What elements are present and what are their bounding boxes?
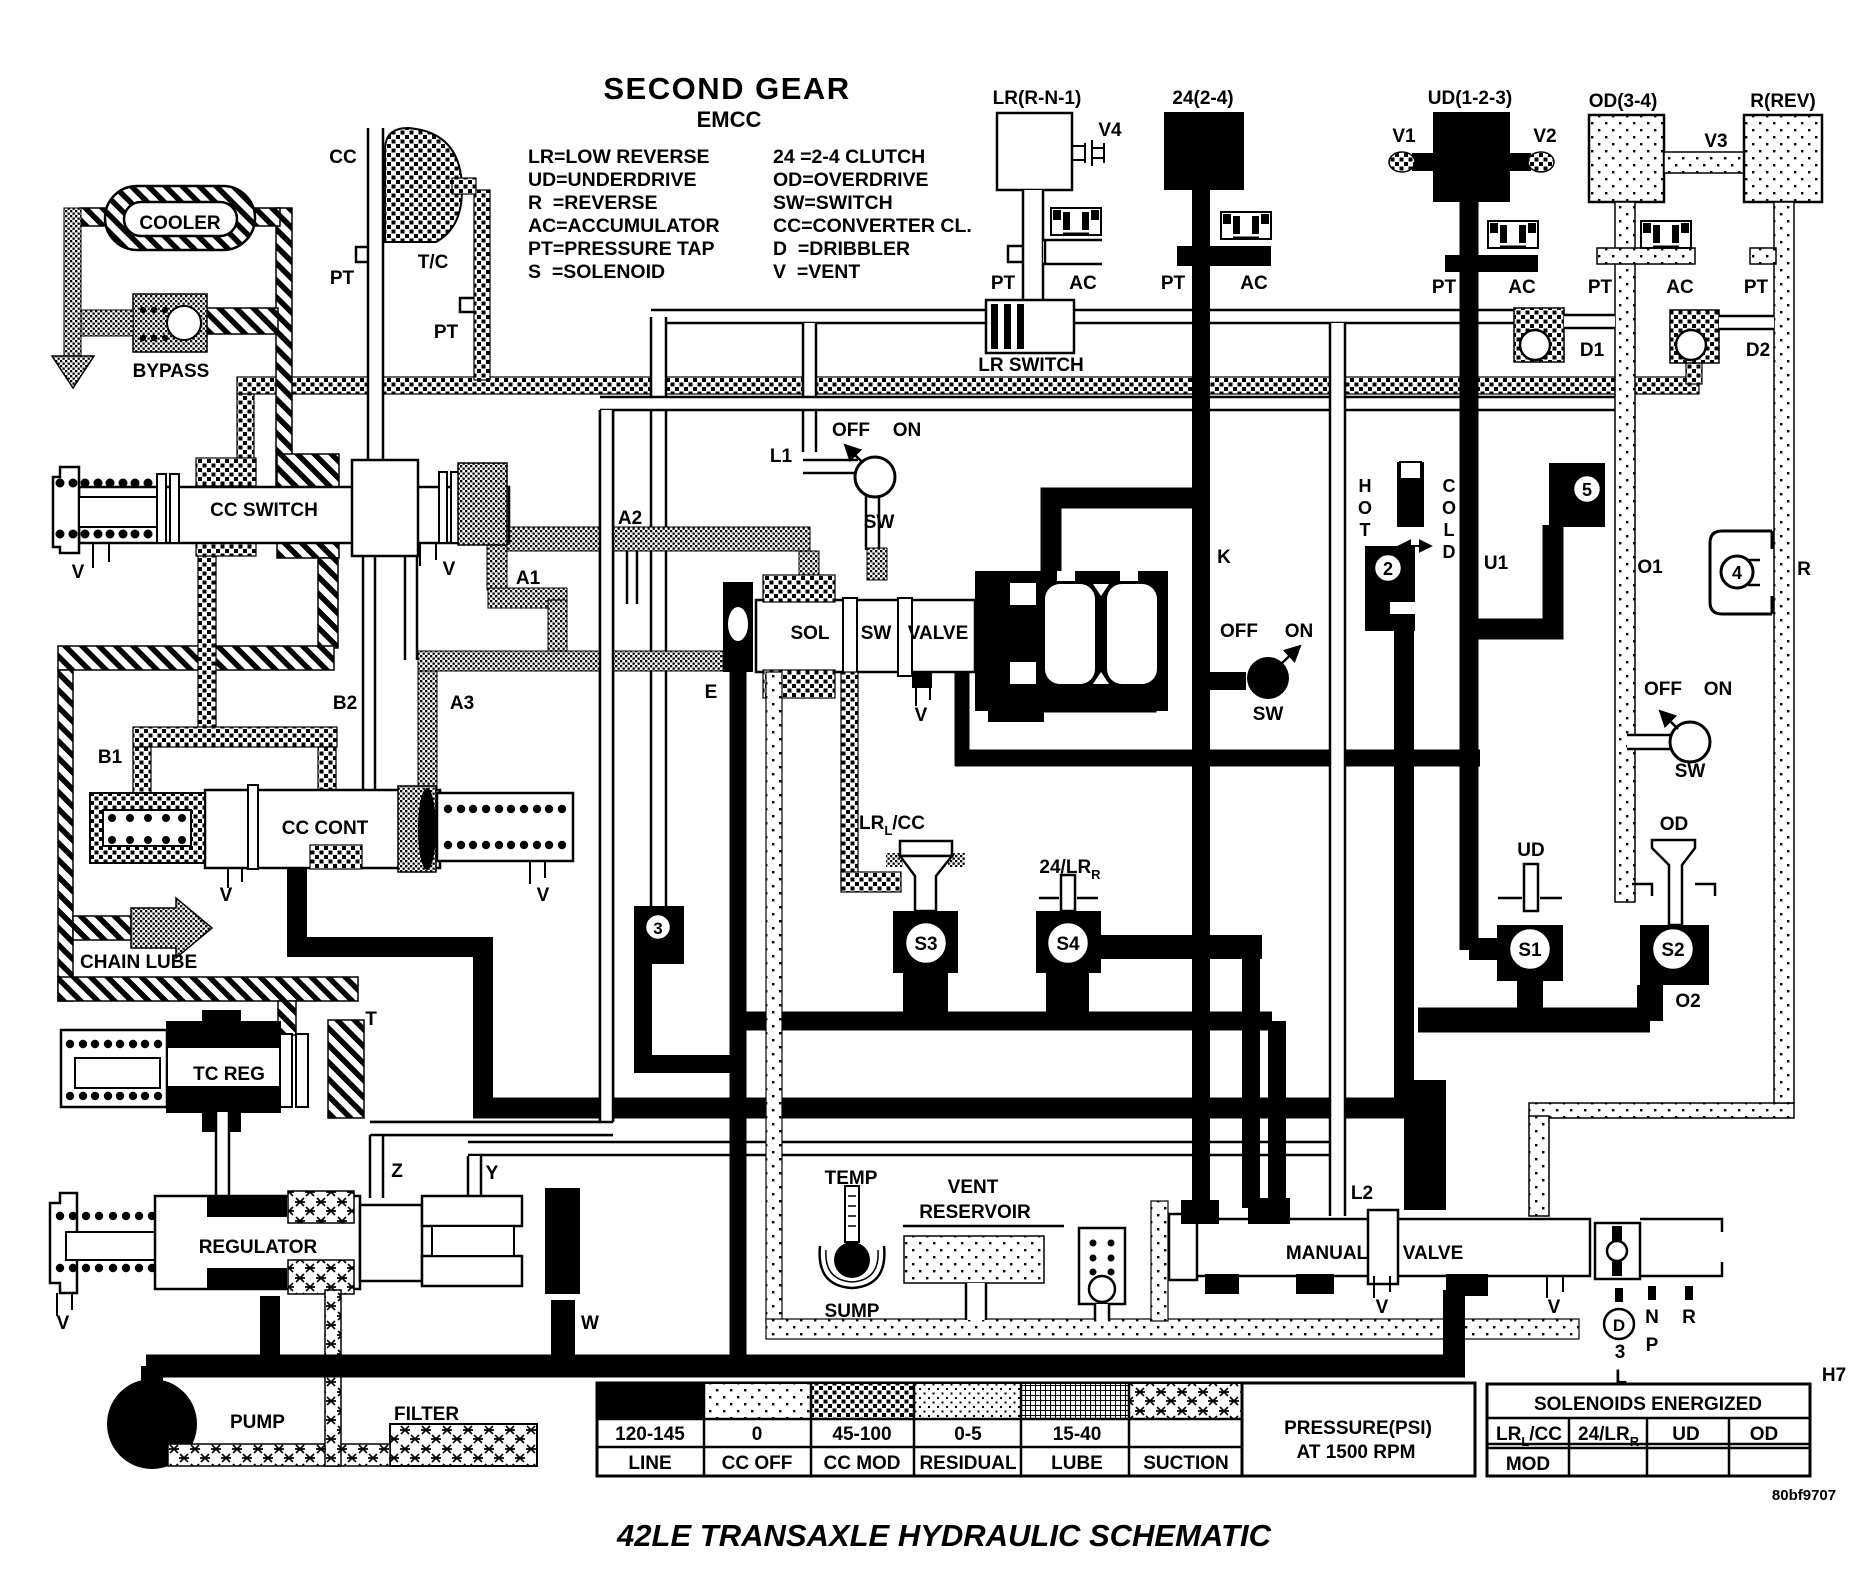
dribbler D1 bbox=[1514, 308, 1564, 362]
wire stipple jog at D2 bbox=[1686, 362, 1702, 384]
svg-text:V3: V3 bbox=[1704, 131, 1727, 152]
wire EMCC bottom-left leg bbox=[955, 665, 970, 766]
svg-text:LR(R-N-1): LR(R-N-1) bbox=[993, 88, 1082, 109]
svg-text:15-40: 15-40 bbox=[1053, 1424, 1102, 1445]
svg-text:EMCC: EMCC bbox=[697, 107, 762, 132]
wire EMCC SW port bottom black bbox=[988, 698, 1044, 722]
svg-text:AC: AC bbox=[1240, 273, 1268, 294]
switch SW at L1 bbox=[855, 457, 895, 497]
wire node5 drop bbox=[1478, 525, 1553, 629]
FILTER star box bbox=[390, 1424, 537, 1466]
svg-text:AC: AC bbox=[1508, 277, 1536, 298]
manual valve bottom blocks bbox=[1205, 1274, 1239, 1294]
svg-text:FILTER: FILTER bbox=[394, 1404, 459, 1425]
wire channel to node 3 bbox=[651, 317, 666, 906]
wire OD stem stipple bbox=[1615, 202, 1635, 902]
wire T/C right stipple path bbox=[474, 190, 490, 380]
svg-text:CC MOD: CC MOD bbox=[823, 1453, 900, 1474]
svg-text:V: V bbox=[57, 1313, 70, 1334]
svg-text:N: N bbox=[1645, 1307, 1659, 1328]
D1 link channel bbox=[1564, 315, 1615, 328]
CC CONT stipple bits bbox=[310, 845, 362, 869]
hatch block CC SWITCH top bbox=[277, 454, 339, 490]
wire channel Y drop bbox=[468, 1156, 481, 1198]
wire O2 elbow to S2 bbox=[1637, 985, 1663, 1021]
sump wall right of reservoir bbox=[1151, 1201, 1168, 1321]
svg-text:D: D bbox=[1613, 1316, 1625, 1335]
svg-text:D: D bbox=[1443, 542, 1456, 562]
wire LR AC branch bbox=[1043, 240, 1102, 264]
solenoid S3 bbox=[893, 911, 958, 973]
svg-text:80bf9707: 80bf9707 bbox=[1772, 1487, 1836, 1504]
svg-text:PT=PRESSURE TAP: PT=PRESSURE TAP bbox=[528, 238, 715, 260]
EMCC vent stub bbox=[912, 672, 932, 688]
wire H_C main feed horizontal bbox=[473, 1098, 1420, 1119]
TC REG plates bbox=[280, 1034, 292, 1107]
solenoids energized table bbox=[1487, 1384, 1810, 1476]
wire UD crossbar bbox=[1445, 255, 1538, 272]
manual valve left cap bbox=[1169, 1214, 1197, 1280]
wire A1-A3 gray horizontal to E bbox=[418, 651, 723, 671]
suction star vertical bbox=[325, 1290, 341, 1466]
wire A2 gray line bbox=[505, 527, 810, 551]
svg-text:V: V bbox=[1548, 1297, 1561, 1318]
svg-text:SW: SW bbox=[1253, 704, 1284, 725]
cooler loop hatched band right bbox=[276, 208, 292, 490]
svg-text:24(2-4): 24(2-4) bbox=[1172, 88, 1233, 109]
svg-text:5: 5 bbox=[1582, 480, 1592, 500]
PT stub on T/C path bbox=[460, 298, 474, 312]
svg-text:OD: OD bbox=[1750, 1424, 1779, 1445]
wire W drop bbox=[551, 1300, 575, 1366]
svg-text:H7: H7 bbox=[1822, 1365, 1846, 1386]
wire node3 stem bbox=[643, 962, 740, 1064]
svg-text:120-145: 120-145 bbox=[615, 1424, 685, 1445]
svg-text:R =REVERSE: R =REVERSE bbox=[528, 192, 658, 214]
manual valve right pin box bbox=[1595, 1223, 1640, 1279]
svg-text:2: 2 bbox=[1383, 559, 1393, 579]
cooler capsule bbox=[105, 186, 255, 250]
svg-text:O: O bbox=[1442, 498, 1456, 518]
svg-text:D2: D2 bbox=[1746, 340, 1770, 361]
svg-text:S2: S2 bbox=[1661, 940, 1684, 961]
REGULATOR left bracket bbox=[50, 1193, 77, 1293]
CC CONT plates bbox=[248, 785, 258, 869]
svg-text:V1: V1 bbox=[1392, 126, 1416, 147]
wire channel L1 drop bbox=[803, 323, 816, 452]
svg-text:B2: B2 bbox=[333, 693, 357, 714]
svg-text:RESERVOIR: RESERVOIR bbox=[919, 1202, 1031, 1223]
wire stipple B1 horizontal bbox=[133, 727, 337, 747]
svg-text:BYPASS: BYPASS bbox=[133, 361, 210, 382]
wire UD clutch line vertical bbox=[1460, 202, 1479, 950]
svg-text:VALVE: VALVE bbox=[908, 623, 969, 644]
wire pump riser bbox=[141, 1366, 163, 1390]
pressure legend table bbox=[597, 1383, 1242, 1476]
svg-text:R: R bbox=[1797, 559, 1811, 580]
T/C dome bbox=[385, 128, 462, 242]
clutch box R(REV) bbox=[1744, 115, 1822, 202]
solenoid S2 funnel bbox=[1652, 840, 1695, 925]
solenoid S4 stem bbox=[1061, 875, 1075, 911]
svg-text:SW: SW bbox=[861, 623, 892, 644]
bypass gray stub bbox=[81, 310, 133, 336]
B1 spring box bbox=[90, 793, 205, 863]
wire S1 stem bbox=[1517, 975, 1543, 1015]
svg-text:W: W bbox=[581, 1313, 599, 1334]
wire channel C2-drop overdraw bbox=[600, 410, 613, 1122]
wire light stipple channel SOL down bbox=[766, 672, 782, 1322]
svg-text:UD=UNDERDRIVE: UD=UNDERDRIVE bbox=[528, 169, 696, 191]
PT stub LR bbox=[1008, 246, 1023, 262]
wire regulator drop bbox=[260, 1296, 280, 1366]
wire main pump line bbox=[146, 1355, 1465, 1378]
D2 link channel bbox=[1719, 316, 1774, 329]
wire S3 stem bbox=[903, 973, 948, 1021]
svg-text:B1: B1 bbox=[98, 747, 123, 768]
svg-text:V4: V4 bbox=[1098, 120, 1122, 141]
wire EMCC recirculation loop bbox=[1000, 675, 1150, 706]
wire channel C2 left drop bbox=[600, 410, 613, 1122]
wire R line to manual valve stipple bbox=[1529, 1103, 1794, 1118]
svg-text:PT: PT bbox=[1744, 277, 1769, 298]
wire channel C3 horizontal bbox=[468, 1142, 1332, 1155]
svg-text:0: 0 bbox=[752, 1424, 763, 1445]
svg-text:REGULATOR: REGULATOR bbox=[199, 1237, 318, 1258]
CC SWITCH spring bbox=[56, 479, 65, 488]
wire SW stub from K bbox=[1201, 672, 1246, 690]
svg-text:MOD: MOD bbox=[1506, 1454, 1550, 1475]
svg-text:SUCTION: SUCTION bbox=[1143, 1453, 1229, 1474]
suction star band bbox=[168, 1444, 390, 1466]
svg-text:OFF: OFF bbox=[832, 420, 870, 441]
svg-text:SW: SW bbox=[1675, 761, 1706, 782]
svg-text:LUBE: LUBE bbox=[1051, 1453, 1103, 1474]
wire gray stub into SW block bbox=[867, 548, 887, 580]
wire channel B2 drops below CC SWITCH bbox=[363, 556, 375, 790]
wire K branch into EMCC valve bbox=[1051, 498, 1201, 578]
wire channel Z feed bbox=[370, 1122, 613, 1135]
wire channel C2 horizontal bbox=[600, 397, 1615, 410]
svg-text:S1: S1 bbox=[1518, 940, 1542, 961]
svg-text:V: V bbox=[220, 885, 233, 906]
svg-text:O2: O2 bbox=[1675, 991, 1700, 1012]
svg-text:MANUAL: MANUAL bbox=[1286, 1243, 1369, 1264]
accumulator LR bbox=[1051, 208, 1101, 235]
svg-text:A1: A1 bbox=[516, 568, 541, 589]
svg-text:U1: U1 bbox=[1484, 553, 1509, 574]
wire manual valve right riser bbox=[1443, 1290, 1465, 1366]
wire channel A2 stub bbox=[627, 551, 637, 604]
svg-text:O: O bbox=[1358, 498, 1372, 518]
svg-text:PT: PT bbox=[1432, 277, 1457, 298]
R crossbar stub bbox=[1750, 248, 1776, 264]
svg-text:T: T bbox=[1360, 520, 1371, 540]
svg-text:S3: S3 bbox=[914, 934, 937, 955]
CC CONT vent stubs bbox=[228, 868, 242, 888]
accumulator UD bbox=[1488, 221, 1538, 248]
wire LR stem channel bbox=[1023, 190, 1043, 302]
switch SW overdrive bbox=[1627, 735, 1672, 749]
hatch block CC SWITCH bottom bbox=[277, 524, 339, 558]
svg-text:C: C bbox=[1443, 476, 1456, 496]
svg-text:45-100: 45-100 bbox=[832, 1424, 891, 1445]
svg-text:V: V bbox=[72, 562, 85, 583]
svg-text:0-5: 0-5 bbox=[954, 1424, 982, 1445]
chain-lube hatched frame top bbox=[58, 646, 334, 670]
svg-text:UD: UD bbox=[1517, 840, 1544, 861]
svg-text:OD=OVERDRIVE: OD=OVERDRIVE bbox=[773, 169, 929, 191]
wire channel L1 to switch SW bbox=[803, 460, 858, 473]
bypass gray band bbox=[64, 208, 81, 356]
svg-text:SUMP: SUMP bbox=[825, 1301, 880, 1322]
clutch box 24(2-4) bbox=[1164, 112, 1244, 190]
wire A1 gray vertical bbox=[548, 600, 567, 655]
node 3 bbox=[634, 906, 684, 964]
EMCC plates bbox=[843, 598, 857, 676]
wire TC REG stem channel bbox=[216, 1112, 229, 1198]
svg-text:PT: PT bbox=[434, 322, 459, 343]
wire R drop into valve stipple bbox=[1529, 1116, 1549, 1216]
node 4 bracket bbox=[1710, 531, 1772, 614]
svg-text:42LE TRANSAXLE HYDRAULIC SCHEM: 42LE TRANSAXLE HYDRAULIC SCHEMATIC bbox=[616, 1518, 1272, 1553]
wire A2 gray stub into SOL bbox=[799, 551, 819, 581]
CC SWITCH valve body bbox=[79, 487, 509, 543]
hatch drop below CC SWITCH bbox=[318, 558, 338, 648]
svg-text:3: 3 bbox=[1615, 1342, 1626, 1363]
node 5 bbox=[1549, 463, 1605, 527]
solenoid S3 funnel bbox=[886, 853, 903, 867]
CC SWITCH vent stubs bbox=[93, 543, 109, 568]
CC SWITCH center cross bbox=[352, 460, 418, 556]
svg-text:UD: UD bbox=[1672, 1424, 1699, 1445]
svg-text:SOL: SOL bbox=[790, 623, 829, 644]
svg-text:D1: D1 bbox=[1580, 340, 1605, 361]
REGULATOR star blocks bbox=[288, 1191, 354, 1223]
wire 24 crossbar bbox=[1177, 246, 1271, 266]
solenoid S1 bbox=[1497, 925, 1563, 981]
svg-text:L: L bbox=[1444, 520, 1455, 540]
wire A3 gray drop to CC CONT bbox=[418, 671, 437, 791]
svg-text:CC CONT: CC CONT bbox=[282, 818, 369, 839]
V4 connector bbox=[1072, 140, 1104, 166]
svg-text:SOLENOIDS ENERGIZED: SOLENOIDS ENERGIZED bbox=[1534, 1394, 1762, 1415]
svg-text:COOLER: COOLER bbox=[139, 213, 221, 234]
wire reservoir stem bbox=[966, 1283, 986, 1320]
svg-text:R: R bbox=[1682, 1307, 1696, 1328]
wire O2 line bbox=[1418, 1008, 1650, 1033]
svg-text:VALVE: VALVE bbox=[1403, 1243, 1464, 1264]
wire stipple drop to CC SWITCH bbox=[237, 394, 254, 462]
svg-text:SW: SW bbox=[864, 512, 895, 533]
wire CC CONT black drop bbox=[297, 866, 483, 1098]
SOL stipple block bottom bbox=[763, 670, 835, 698]
switch SW EMCC bbox=[1247, 657, 1289, 699]
svg-text:L2: L2 bbox=[1351, 1183, 1373, 1204]
REGULATOR right black block bbox=[545, 1188, 580, 1294]
clutch box LR(R-N-1) bbox=[997, 113, 1072, 190]
clutch box OD(3-4) bbox=[1589, 115, 1664, 202]
CC SWITCH gray end block bbox=[458, 463, 507, 545]
svg-text:A3: A3 bbox=[450, 693, 474, 714]
svg-text:RESIDUAL: RESIDUAL bbox=[919, 1453, 1017, 1474]
bypass valve bbox=[133, 294, 207, 352]
wire A1 gray drop from CC SWITCH bbox=[487, 545, 507, 590]
sump enclosure bottom stipple bbox=[766, 1319, 1579, 1339]
wire CC channel bbox=[368, 128, 383, 460]
svg-text:PRESSURE(PSI): PRESSURE(PSI) bbox=[1284, 1418, 1432, 1439]
SOL stipple block top bbox=[763, 575, 835, 602]
wire A1 gray horizontal bbox=[488, 588, 567, 608]
svg-text:CC: CC bbox=[329, 147, 357, 168]
svg-text:P: P bbox=[1646, 1335, 1659, 1356]
wire stipple drop into CC CONT bbox=[318, 747, 336, 797]
svg-text:SECOND GEAR: SECOND GEAR bbox=[603, 71, 850, 106]
hatched elbow to T bbox=[278, 1001, 296, 1035]
CC CONT valve body bbox=[205, 790, 440, 868]
svg-text:PT: PT bbox=[330, 268, 355, 289]
solenoid S2 bbox=[1640, 925, 1709, 985]
manual valve right channel bbox=[1640, 1219, 1722, 1276]
pressure psi box bbox=[1242, 1383, 1475, 1476]
svg-text:PT: PT bbox=[1161, 273, 1186, 294]
wire E line vertical bbox=[730, 668, 747, 1368]
CC SWITCH plates bbox=[157, 474, 166, 543]
cooler link top bbox=[80, 208, 280, 226]
svg-text:ON: ON bbox=[893, 420, 922, 441]
dribbler D2 bbox=[1670, 310, 1719, 363]
svg-text:OD(3-4): OD(3-4) bbox=[1589, 91, 1658, 112]
shift indicator bbox=[1615, 1288, 1623, 1302]
svg-text:E: E bbox=[705, 682, 718, 703]
wire channel L2 vertical bbox=[1330, 323, 1345, 1216]
solenoid S1 stem bbox=[1524, 864, 1538, 911]
accumulator 24 bbox=[1221, 212, 1271, 239]
svg-text:V: V bbox=[915, 705, 928, 726]
node 2 bbox=[1365, 546, 1415, 631]
wire main pump line overdraw bbox=[146, 1355, 1465, 1378]
svg-text:OD: OD bbox=[1660, 814, 1689, 835]
bypass arrow head bbox=[52, 356, 94, 388]
wire 24 clutch line K vertical bbox=[1192, 190, 1210, 1212]
CC CONT right spring bracket bbox=[437, 793, 573, 861]
svg-text:H: H bbox=[1359, 476, 1372, 496]
clutch box UD(1-2-3) bbox=[1433, 112, 1510, 202]
svg-text:LINE: LINE bbox=[628, 1453, 671, 1474]
svg-text:LR=LOW REVERSE: LR=LOW REVERSE bbox=[528, 146, 709, 168]
svg-text:O1: O1 bbox=[1637, 557, 1663, 578]
wire channel below switch SW bbox=[866, 494, 879, 550]
svg-text:OFF: OFF bbox=[1220, 621, 1258, 642]
bypass valve link hatched bbox=[203, 308, 278, 334]
svg-text:AT 1500 RPM: AT 1500 RPM bbox=[1297, 1442, 1416, 1463]
svg-text:S4: S4 bbox=[1056, 934, 1080, 955]
REGULATOR right piston bbox=[360, 1205, 422, 1281]
wire UD elbow to S1 bbox=[1469, 938, 1512, 960]
svg-text:Z: Z bbox=[391, 1161, 403, 1182]
wire stipple B1 drop bbox=[133, 747, 151, 795]
svg-text:S =SOLENOID: S =SOLENOID bbox=[528, 261, 665, 283]
svg-text:D =DRIBBLER: D =DRIBBLER bbox=[773, 238, 910, 260]
svg-text:Y: Y bbox=[486, 1163, 499, 1184]
wire S4 right horizontal bbox=[1098, 935, 1262, 959]
wire wide drop into manual valve bbox=[1404, 1080, 1446, 1210]
MANUAL VALVE body bbox=[1195, 1219, 1590, 1276]
svg-text:K: K bbox=[1217, 547, 1231, 568]
TC REG body bbox=[167, 1022, 280, 1112]
EMCC black section with barrel bbox=[975, 571, 1168, 711]
wire channel Z drop bbox=[370, 1135, 383, 1198]
svg-text:CC OFF: CC OFF bbox=[722, 1453, 793, 1474]
thermal valve bbox=[1397, 462, 1424, 527]
svg-text:CC=CONVERTER CL.: CC=CONVERTER CL. bbox=[773, 215, 972, 237]
svg-text:L1: L1 bbox=[770, 446, 793, 467]
wire channel C1 LR-switch line bbox=[651, 310, 988, 323]
svg-text:V: V bbox=[537, 885, 550, 906]
svg-text:AC=ACCUMULATOR: AC=ACCUMULATOR bbox=[528, 215, 720, 237]
REGULATOR body bbox=[155, 1196, 360, 1289]
svg-text:AC: AC bbox=[1069, 273, 1097, 294]
svg-text:LR SWITCH: LR SWITCH bbox=[978, 355, 1084, 376]
vent dribbler component bbox=[1079, 1228, 1125, 1304]
CC SWITCH left cap bbox=[53, 467, 79, 553]
chain lube arrow bbox=[73, 916, 131, 940]
svg-text:VENT: VENT bbox=[948, 1177, 999, 1198]
svg-text:24 =2-4 CLUTCH: 24 =2-4 CLUTCH bbox=[773, 146, 925, 168]
svg-text:AC: AC bbox=[1666, 277, 1694, 298]
thermal arrow bbox=[1400, 545, 1430, 547]
V3 connector bbox=[1664, 152, 1744, 173]
svg-text:TC REG: TC REG bbox=[193, 1064, 265, 1085]
svg-text:SW=SWITCH: SW=SWITCH bbox=[773, 192, 893, 214]
wire EMCC to node2 horizontal bbox=[955, 750, 1480, 767]
wire checkered channel SW to S3 bbox=[841, 672, 858, 884]
wire CC-MOD stipple band horizontal bbox=[237, 377, 1699, 394]
stipple blocks CC SWITCH bbox=[196, 458, 256, 486]
svg-text:CC SWITCH: CC SWITCH bbox=[210, 500, 318, 521]
svg-text:ON: ON bbox=[1285, 621, 1314, 642]
wire H_A solenoid feed bbox=[746, 1012, 1272, 1031]
V1 connector bbox=[1412, 153, 1433, 171]
manual valve top blocks bbox=[1181, 1200, 1219, 1224]
hatched block right of TC REG bbox=[328, 1020, 364, 1118]
CC CONT gray block bbox=[398, 786, 436, 872]
EMCC valve body SOL SW VALVE bbox=[756, 600, 975, 672]
svg-text:V2: V2 bbox=[1533, 126, 1556, 147]
wire stipple CC-CONT feed vertical bbox=[198, 543, 216, 739]
wire V5 drop to manual valve bbox=[1242, 947, 1260, 1208]
solenoid S4 bbox=[1036, 911, 1101, 973]
manual valve vent stubs bbox=[1374, 1276, 1390, 1298]
wire S4 stem bbox=[1046, 973, 1089, 1021]
svg-text:3: 3 bbox=[653, 919, 662, 938]
TC REG left bracket bbox=[61, 1030, 167, 1107]
wire R stem stipple bbox=[1774, 202, 1794, 1103]
svg-text:ON: ON bbox=[1704, 679, 1733, 700]
svg-text:T: T bbox=[365, 1009, 377, 1030]
LR SWITCH bbox=[986, 300, 1074, 353]
chain-lube hatched frame bottom bbox=[58, 977, 358, 1001]
svg-text:PT: PT bbox=[991, 273, 1016, 294]
svg-text:UD(1-2-3): UD(1-2-3) bbox=[1428, 88, 1512, 109]
accumulator OD bbox=[1597, 248, 1695, 264]
svg-text:PUMP: PUMP bbox=[230, 1412, 285, 1433]
manual valve plates bbox=[1368, 1210, 1398, 1284]
chain-lube hatched frame left bbox=[58, 670, 73, 1001]
svg-text:OFF: OFF bbox=[1644, 679, 1682, 700]
svg-text:V: V bbox=[1376, 1297, 1389, 1318]
EMCC valve left black bar bbox=[723, 582, 753, 672]
